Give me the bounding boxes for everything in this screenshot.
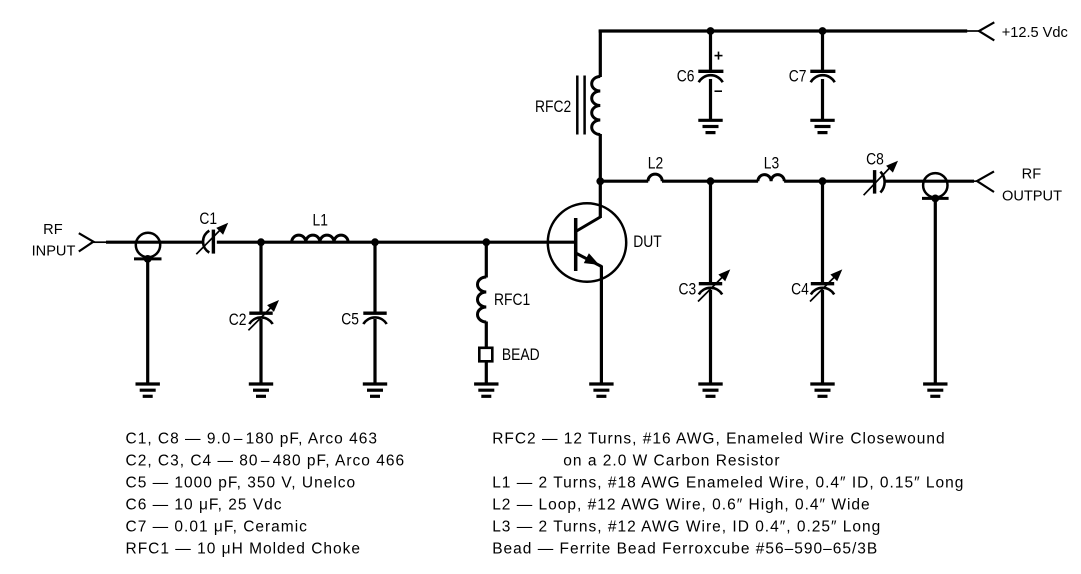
wire C2 upper <box>259 242 262 312</box>
wire output line segment 3 <box>784 180 873 183</box>
svg-text:BEAD: BEAD <box>502 346 540 364</box>
svg-text:OUTPUT: OUTPUT <box>1002 188 1062 204</box>
svg-text:RF: RF <box>43 222 63 238</box>
wire output line segment 2 <box>662 180 758 183</box>
svg-text:RF: RF <box>1022 167 1042 183</box>
svg-text:L3: L3 <box>764 154 779 172</box>
ferrite bead <box>479 348 492 362</box>
wire C5 upper <box>373 242 376 312</box>
wire input connector to ground <box>146 259 149 384</box>
wire C7 upper <box>821 31 824 70</box>
ground (C3) <box>698 384 722 396</box>
svg-text:C1, C8 — 9.0 – 180 pF, Arco 46: C1, C8 — 9.0 – 180 pF, Arco 463 <box>126 430 378 447</box>
wire output line segment 1 <box>600 180 648 183</box>
ground (output connector) <box>923 384 947 396</box>
svg-text:L1 — 2 Turns, #18 AWG Enameled: L1 — 2 Turns, #18 AWG Enameled Wire, 0.4… <box>492 474 964 491</box>
capacitor C2 (variable, shunt) <box>248 300 279 330</box>
wire bead to ground <box>485 361 488 383</box>
capacitor C1 (variable, series) <box>196 223 228 254</box>
inductor L1 <box>292 235 348 242</box>
wire +12.5V rail <box>599 29 968 32</box>
C6 minus sign <box>715 90 723 92</box>
wire RFC1 to bead <box>485 322 488 349</box>
svg-text:C6 — 10 μF, 25 Vdc: C6 — 10 μF, 25 Vdc <box>126 496 283 513</box>
node C3 tap <box>707 177 715 185</box>
ground (C4) <box>810 384 834 396</box>
RF OUTPUT label <box>1002 167 1062 205</box>
wire C5 lower <box>373 319 376 384</box>
ground (C2) <box>249 384 273 396</box>
wire C4 lower <box>821 290 824 384</box>
node RFC1 tap <box>482 238 490 246</box>
svg-text:C4: C4 <box>791 280 809 298</box>
svg-text:C2, C3, C4 — 80 – 480 pF, Arco: C2, C3, C4 — 80 – 480 pF, Arco 466 <box>126 452 406 469</box>
wire collector up <box>599 181 602 218</box>
svg-text:RFC1 — 10 μH Molded Choke: RFC1 — 10 μH Molded Choke <box>126 540 362 557</box>
inductor RFC1 <box>477 277 486 322</box>
C6 plus sign <box>715 52 723 60</box>
node C6 tap <box>707 27 715 35</box>
svg-text:on a 2.0 W Carbon Resistor: on a 2.0 W Carbon Resistor <box>563 452 780 469</box>
svg-text:L2: L2 <box>648 154 663 172</box>
inductor RFC2 <box>592 77 601 135</box>
capacitor C3 (variable, shunt) <box>698 269 730 301</box>
svg-text:C5 — 1000 pF, 350 V, Unelco: C5 — 1000 pF, 350 V, Unelco <box>126 474 357 491</box>
legend left column <box>126 430 406 557</box>
input source arrow <box>79 233 108 251</box>
svg-text:C1: C1 <box>199 210 217 228</box>
wire output line segment 4 <box>886 180 975 183</box>
inductor L3 <box>758 175 784 182</box>
capacitor C7 <box>810 71 835 82</box>
wire C3 lower <box>709 290 712 384</box>
capacitor C5 <box>363 313 386 324</box>
connector J1 (input) <box>134 233 162 259</box>
RF OUTPUT terminal arrow <box>972 171 994 192</box>
wire C6 upper <box>709 31 712 70</box>
node C2 tap <box>257 238 265 246</box>
node C4 tap <box>819 177 827 185</box>
node C5 tap <box>371 238 379 246</box>
wire RFC2 top (from rail) <box>599 30 602 77</box>
transistor DUT <box>548 203 626 281</box>
wire input line left segment <box>106 241 203 244</box>
capacitor C6 (electrolytic) <box>698 71 723 82</box>
wire input line right segment <box>217 241 575 244</box>
inductor L2 (loop) <box>648 174 662 181</box>
svg-text:L1: L1 <box>313 211 328 229</box>
capacitor C8 (variable, series) <box>864 161 898 196</box>
RFC2 core bars <box>577 76 584 135</box>
wire C6 lower <box>709 79 712 120</box>
node C7 tap <box>819 27 827 35</box>
svg-text:C7 — 0.01 μF, Ceramic: C7 — 0.01 μF, Ceramic <box>126 518 308 535</box>
ground (input connector) <box>136 384 160 396</box>
svg-text:L3 — 2 Turns, #12 AWG Wire, ID: L3 — 2 Turns, #12 AWG Wire, ID 0.4″, 0.2… <box>492 518 881 535</box>
wire C3 upper <box>709 181 712 282</box>
node output connector shield <box>931 195 939 203</box>
svg-text:INPUT: INPUT <box>32 244 76 260</box>
wire emitter down <box>600 266 603 384</box>
wire C4 upper <box>821 181 824 282</box>
svg-text:C7: C7 <box>789 68 807 86</box>
svg-text:C8: C8 <box>866 150 884 168</box>
svg-text:C5: C5 <box>341 310 359 328</box>
svg-text:L2 — Loop, #12 AWG Wire, 0.6″: L2 — Loop, #12 AWG Wire, 0.6″ High, 0.4″… <box>492 496 870 513</box>
node collector / RFC2 junction <box>596 177 604 185</box>
svg-text:C2: C2 <box>229 311 247 329</box>
ground (C7) <box>810 120 834 132</box>
wire RFC1 upper <box>485 242 488 277</box>
ground (C6) <box>698 120 722 132</box>
ground (emitter) <box>589 384 613 396</box>
wire C2 lower <box>259 319 262 384</box>
capacitor C4 (variable, shunt) <box>810 269 842 301</box>
svg-text:RFC1: RFC1 <box>494 291 530 309</box>
node input connector shield <box>144 255 152 263</box>
svg-text:RFC2: RFC2 <box>535 98 571 116</box>
svg-text:DUT: DUT <box>633 233 661 251</box>
ground (bead) <box>474 384 498 396</box>
legend right column <box>492 430 964 557</box>
svg-text:C3: C3 <box>678 280 696 298</box>
RF INPUT label <box>32 222 76 260</box>
ground (C5) <box>363 384 387 396</box>
wire C7 lower <box>821 79 824 120</box>
svg-text:RFC2 — 12 Turns, #16 AWG, Enam: RFC2 — 12 Turns, #16 AWG, Enameled Wire … <box>492 430 945 447</box>
svg-text:Bead — Ferrite Bead Ferroxcube: Bead — Ferrite Bead Ferroxcube #56–590–6… <box>492 540 878 557</box>
wire RFC2 bottom <box>599 134 602 181</box>
wire output connector to ground <box>934 198 937 383</box>
connector J2 (output) <box>922 173 949 198</box>
svg-text:+12.5 Vdc: +12.5 Vdc <box>1002 25 1068 41</box>
svg-text:C6: C6 <box>677 68 695 86</box>
+12.5 Vdc terminal arrow <box>967 22 994 40</box>
